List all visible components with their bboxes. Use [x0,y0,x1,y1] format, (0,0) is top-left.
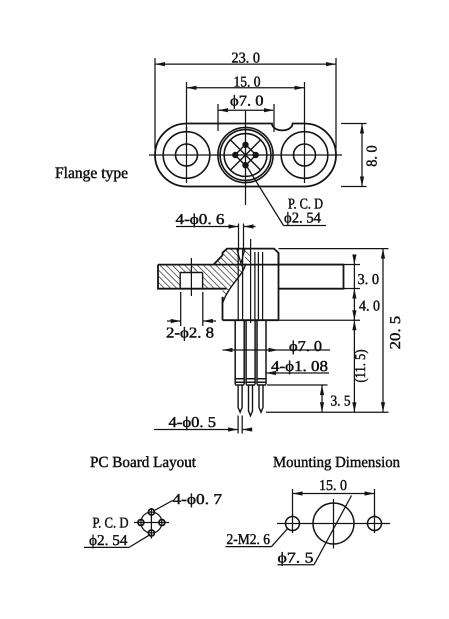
svg-text:20. 5: 20. 5 [388,316,404,350]
flange body outline with notch [155,124,336,187]
svg-text:P. C. D: P. C. D [93,516,129,532]
svg-text:ϕ7. 0: ϕ7. 0 [230,93,264,109]
left mounting hole [163,132,210,179]
dim 20.5 [382,249,384,413]
dim 3.5 [321,385,323,412]
crosshairs [277,499,390,549]
dimension 15.0 [187,82,305,130]
trumpet arc [223,265,246,303]
svg-text:2-M2. 6: 2-M2. 6 [227,532,271,548]
small circles [286,517,300,531]
flange joint top line [158,264,344,266]
svg-text:2-ϕ2. 8: 2-ϕ2. 8 [166,326,214,342]
horizontal center line [149,154,342,156]
hatched cap right block + trumpet flare [245,249,251,265]
svg-text:4-ϕ1. 08: 4-ϕ1. 08 [271,359,328,375]
svg-text:4-ϕ0. 7: 4-ϕ0. 7 [173,492,223,508]
big circle [313,503,354,544]
svg-text:4-ϕ0. 6: 4-ϕ0. 6 [176,212,226,228]
svg-text:ϕ7. 5: ϕ7. 5 [278,551,314,567]
dim 15.0 bottom [293,489,375,516]
4 pads [138,509,165,536]
dim phi7.0 side [223,349,331,351]
right flange bar [279,265,344,289]
svg-text:Mounting Dimension: Mounting Dimension [273,454,400,471]
svg-text:PC Board Layout: PC Board Layout [90,454,197,471]
trumpet region hatched [223,265,246,303]
thin pins [238,385,263,416]
left bar bottom and end [158,265,227,289]
white bolt hole gap [180,273,202,289]
leader to P.C.D [248,168,284,226]
4 pins [242,142,248,148]
svg-text:15. 0: 15. 0 [319,478,347,494]
right hole center line [304,127,306,183]
left hole center line [186,127,188,183]
svg-text:15. 0: 15. 0 [234,74,261,90]
dimension 8.0 right [341,124,367,187]
right mounting hole [281,132,328,179]
svg-text:3. 0: 3. 0 [358,272,380,288]
svg-text:ϕ7. 0: ϕ7. 0 [289,339,322,355]
dimension 23.0 [155,58,336,149]
pin diamond [235,145,256,166]
svg-text:ϕ2. 54: ϕ2. 54 [284,211,321,227]
svg-text:23. 0: 23. 0 [232,51,261,67]
svg-text:8. 0: 8. 0 [365,145,381,167]
right side extension lines [266,249,389,413]
cylinder bottom [223,319,279,321]
dimension phi7.0 top [218,104,274,132]
svg-text:(11. 5): (11. 5) [353,349,369,382]
center receptacle circles [218,127,273,182]
svg-text:Flange type: Flange type [55,165,128,182]
X cross lines [230,140,260,170]
svg-text:3. 5: 3. 5 [331,394,351,410]
bolt hole gap edges [180,273,202,289]
hatched left bar [158,265,223,289]
dim stack 3.0 / 4.0 / (11.5) line [353,257,355,412]
PCD circle [141,512,162,533]
svg-text:4-ϕ0. 5: 4-ϕ0. 5 [169,415,217,431]
dim 4-phi0.5 [154,416,250,434]
cap outline [214,249,279,265]
leads (3 visible columns) [235,320,266,385]
dim 2-phi2.8 [167,292,216,326]
svg-text:4. 0: 4. 0 [359,299,380,315]
svg-text:ϕ2. 54: ϕ2. 54 [89,533,128,549]
shell side walls [222,297,224,320]
V groove edges [237,249,245,264]
side view center line [250,239,252,323]
hatched cap left block with ramp [214,249,242,265]
crosshair [134,522,169,524]
center vertical line [245,111,247,205]
dim 4-phi1.08 [266,372,329,374]
pin hole lines [238,250,262,321]
left bar hole centerline [190,258,192,296]
